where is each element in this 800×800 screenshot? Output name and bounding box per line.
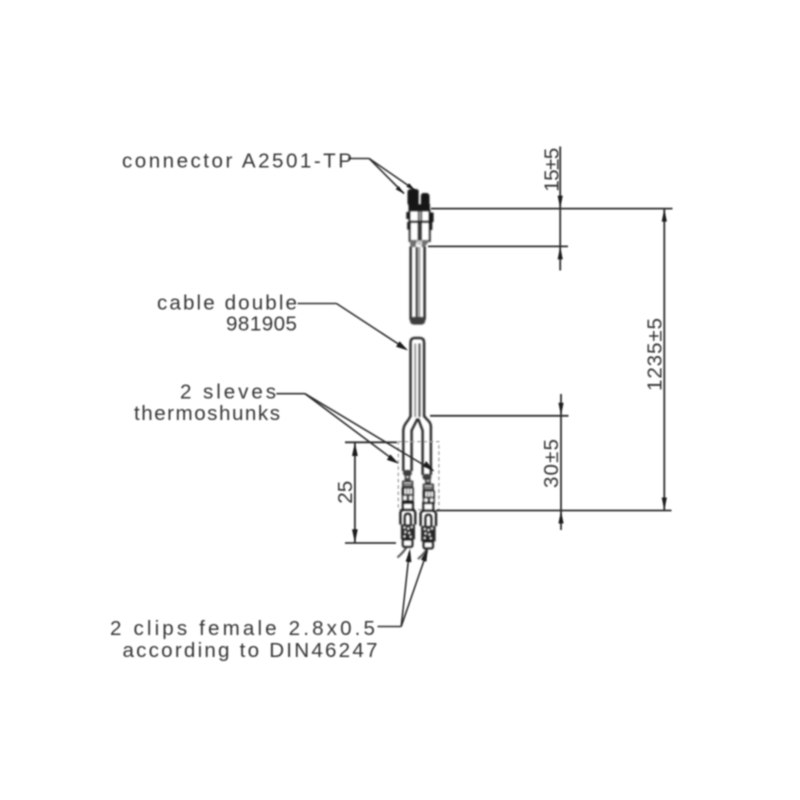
pin gap (419, 192, 421, 204)
svg-text:2 clips female 2.8x0.5: 2 clips female 2.8x0.5 (110, 617, 375, 640)
cable segment 1 (411, 247, 425, 321)
dimension 25 (354, 442, 356, 543)
extension line E3 (cable split) (430, 415, 569, 417)
right tab (429, 213, 434, 223)
extension line E6 (25 bottom) (345, 542, 396, 544)
step line (410, 221, 430, 223)
svg-text:981905: 981905 (226, 313, 297, 336)
left clip (398, 503, 416, 558)
tube left (410, 222, 419, 241)
left wire (403, 430, 411, 471)
extension line E5 (25 top) (345, 441, 397, 443)
svg-text:connector A2501-TP: connector A2501-TP (122, 150, 352, 173)
extension line E2 (bottom of connector) (428, 245, 568, 247)
leaders to sleeves (276, 394, 433, 471)
Y split of cable (403, 416, 431, 431)
svg-text:15±5: 15±5 (540, 148, 563, 192)
cable segment 1 end cap (410, 317, 425, 325)
collar (409, 204, 431, 211)
svg-text:25: 25 (334, 481, 357, 504)
right bump (429, 222, 432, 230)
left tab (406, 212, 410, 219)
sleeve dashed outline box (398, 442, 439, 510)
dimension 15±5 (559, 147, 561, 271)
leader to connector (348, 159, 416, 194)
svg-text:cable double: cable double (157, 292, 297, 315)
dimension 30±5 (560, 394, 562, 530)
svg-text:30±5: 30±5 (540, 439, 563, 488)
svg-text:1235±5: 1235±5 (644, 318, 667, 391)
svg-text:thermoshunks: thermoshunks (134, 402, 280, 425)
extension line E1 (top of connector body) (431, 208, 673, 210)
svg-text:according to DIN46247: according to DIN46247 (123, 639, 378, 662)
pin left (408, 189, 420, 206)
right thermo sleeve stack (423, 479, 435, 504)
svg-text:2 sleves: 2 sleves (180, 381, 276, 404)
left thermo sleeve stack (402, 475, 414, 503)
pin right (421, 193, 430, 207)
left bump (407, 222, 410, 230)
connector A2501-TP body (406, 189, 433, 247)
tube right (421, 222, 430, 241)
right clip (418, 503, 436, 559)
extension line E4 (bottom of clips) (436, 510, 672, 512)
taper to cable (410, 241, 417, 248)
body block (410, 211, 430, 223)
leader to cable (298, 304, 407, 350)
dimension 1235±5 (663, 209, 665, 511)
right wire (423, 426, 431, 475)
leaders to clips (378, 551, 428, 627)
left wire end cap (403, 470, 412, 476)
leader arrowheads (connector) (396, 186, 405, 194)
right wire end cap (423, 474, 432, 480)
cable segment 2 with rounded top (411, 338, 425, 417)
